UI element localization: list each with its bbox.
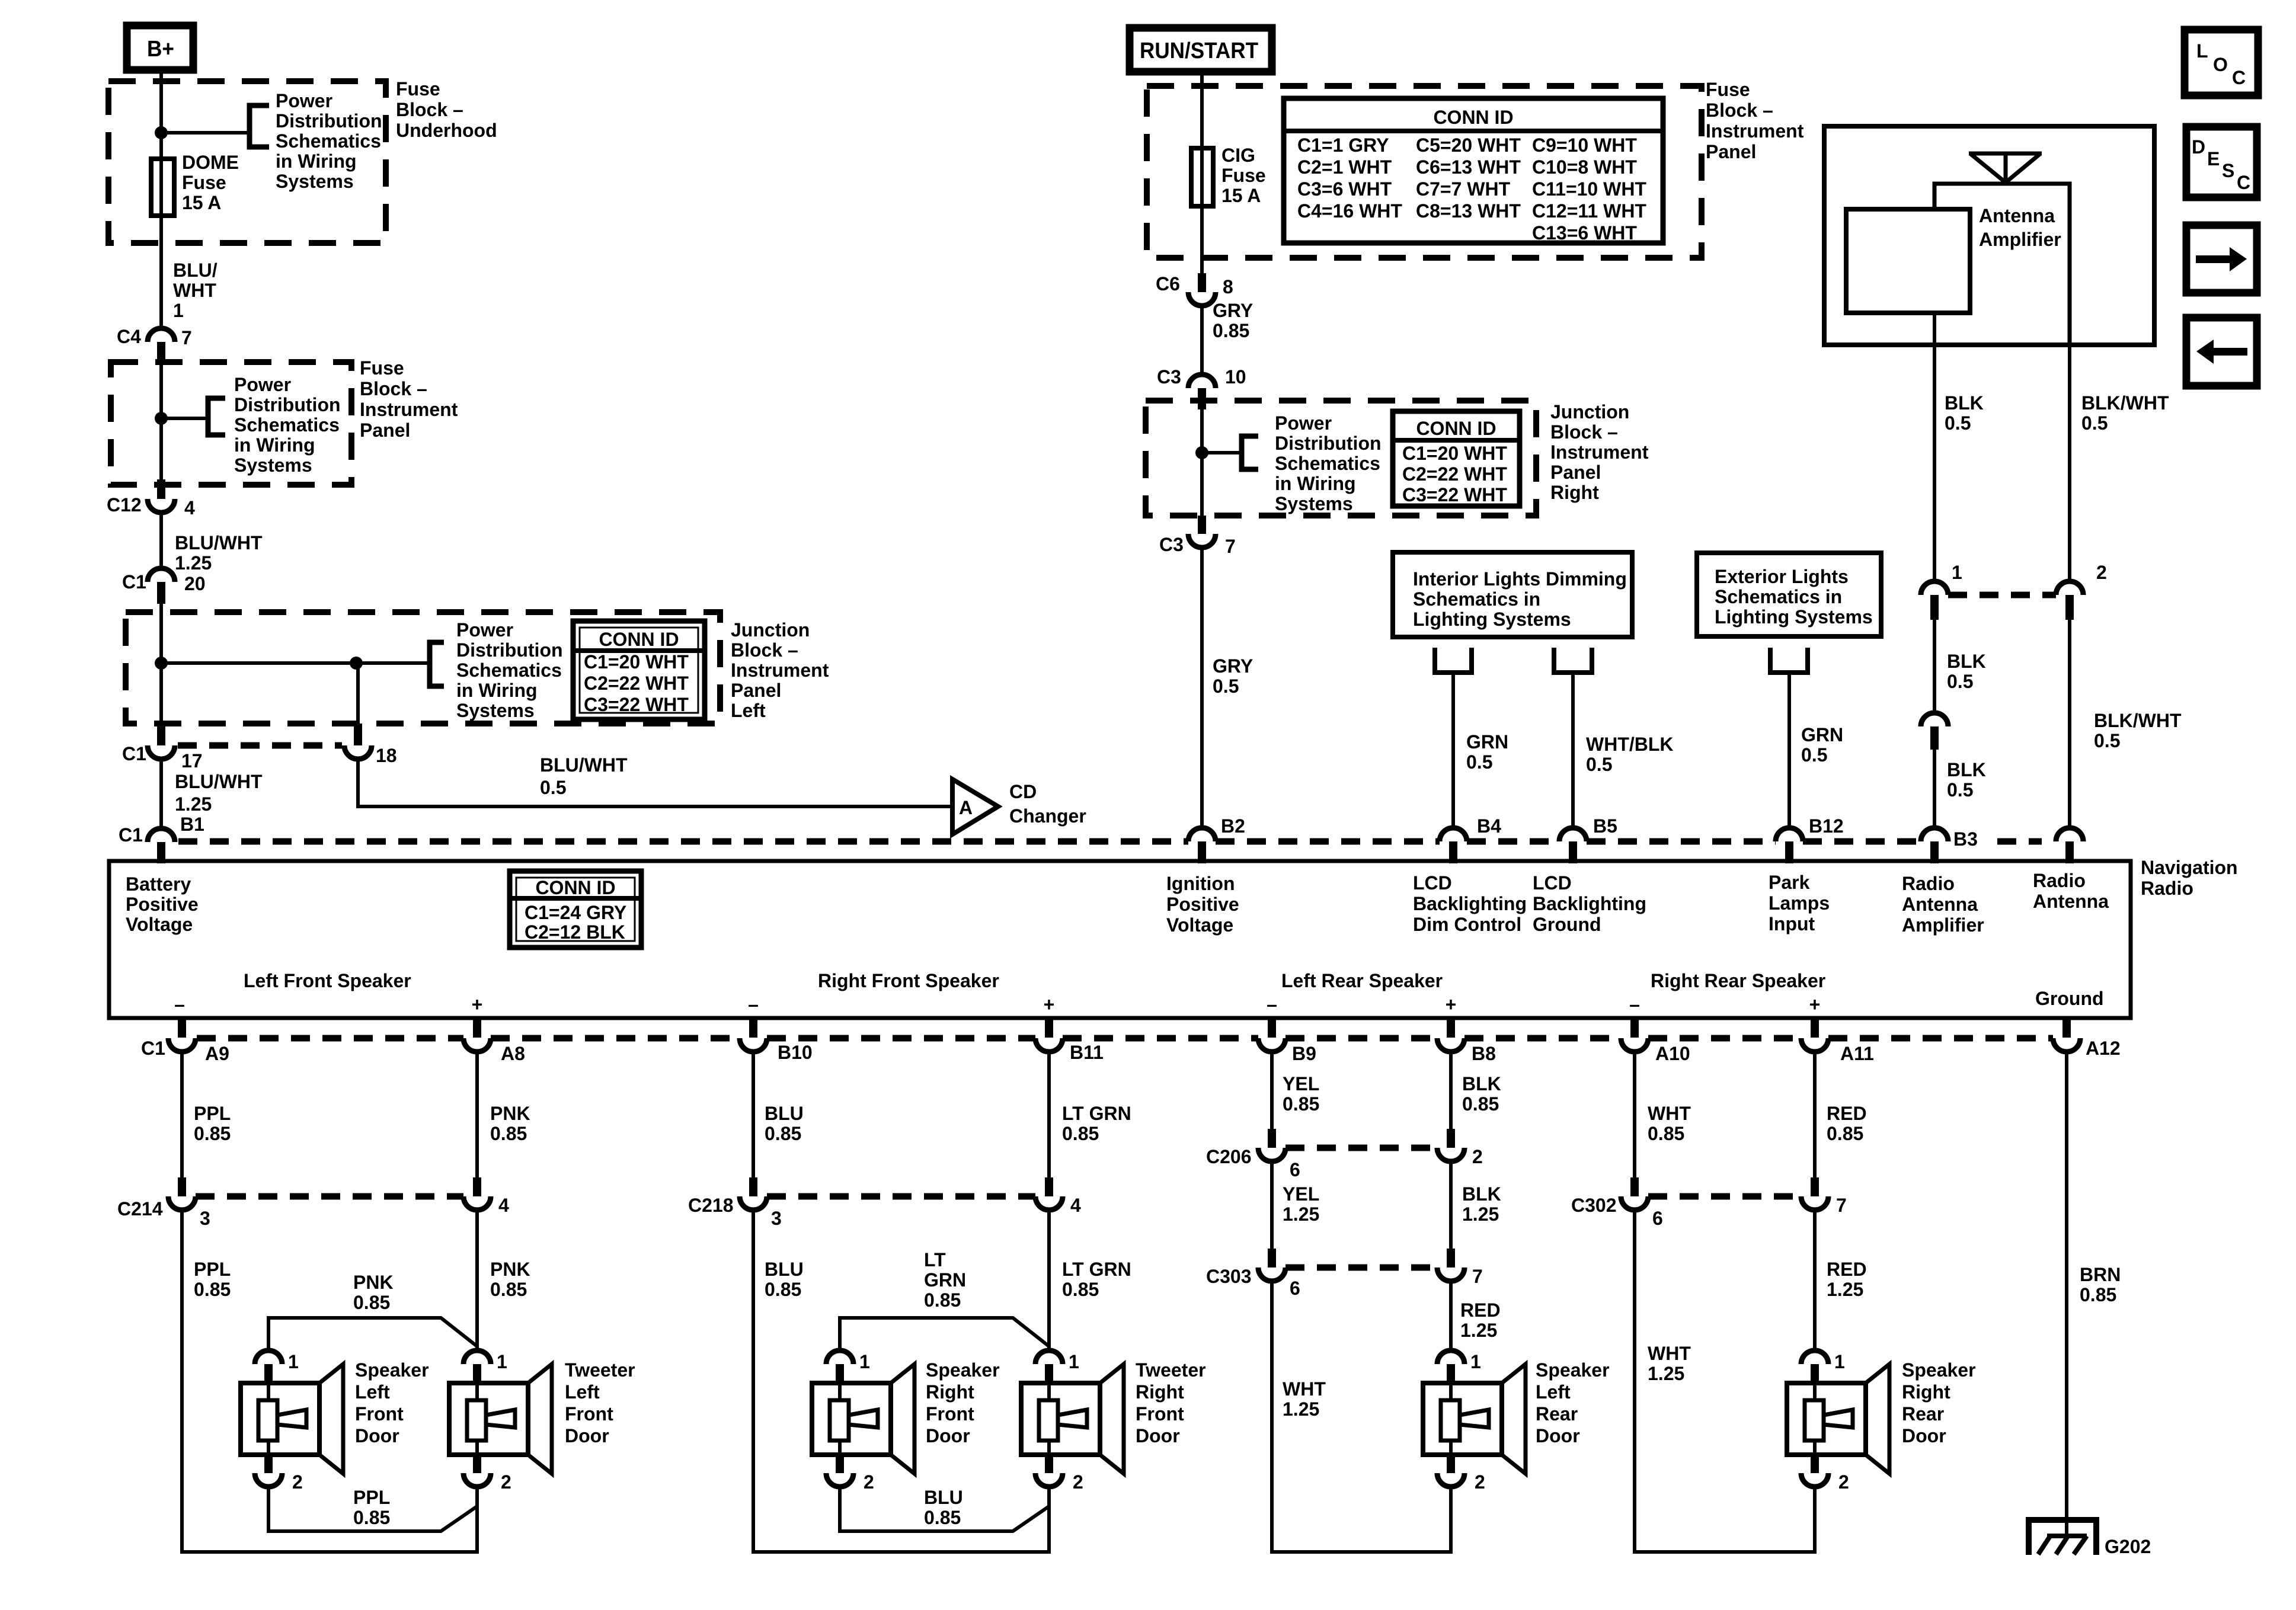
dashed connector line C206	[1285, 1145, 1437, 1151]
svg-text:B9: B9	[1292, 1043, 1316, 1064]
svg-text:Fuse: Fuse	[360, 357, 404, 379]
label BLU 0.85 upper	[765, 1103, 804, 1144]
svg-text:Distribution: Distribution	[1275, 433, 1382, 454]
connector C4 pin 7	[117, 326, 192, 363]
svg-text:0.85: 0.85	[490, 1279, 527, 1300]
svg-text:1.25: 1.25	[175, 552, 212, 574]
dashed connector line radio bottom	[197, 1035, 2053, 1042]
label BLK 0.5 third	[1947, 759, 1986, 801]
wire speaker LF pin1 jog	[268, 1318, 477, 1350]
svg-text:BLU/WHT: BLU/WHT	[540, 754, 628, 776]
label PNK 0.85 upper	[490, 1103, 530, 1144]
wire A8 to C214 pin 4	[475, 1052, 479, 1177]
svg-text:Dim Control: Dim Control	[1413, 914, 1521, 935]
tweeter left front door	[449, 1350, 552, 1493]
label BLU/WHT 0.5	[540, 754, 628, 798]
svg-text:1: 1	[1952, 562, 1962, 583]
svg-text:6: 6	[1290, 1159, 1300, 1180]
svg-text:Panel: Panel	[731, 680, 781, 701]
svg-text:1.25: 1.25	[175, 793, 212, 815]
svg-text:C2=22 WHT: C2=22 WHT	[1402, 463, 1507, 485]
svg-text:0.85: 0.85	[924, 1289, 961, 1311]
svg-text:C3=22 WHT: C3=22 WHT	[1402, 484, 1507, 505]
svg-text:B+: B+	[147, 37, 174, 62]
connector B4	[1440, 815, 1501, 863]
svg-text:BRN: BRN	[2080, 1264, 2121, 1285]
node B+ battery feed	[127, 25, 193, 70]
svg-text:Backlighting: Backlighting	[1533, 893, 1646, 914]
wire PPL to tweeter LF pin 2	[182, 1210, 477, 1552]
label power distribution schematics 5	[1275, 412, 1382, 514]
label BLK 0.5 first	[1945, 392, 1984, 434]
connector C6 pin 8	[1156, 273, 1233, 306]
svg-text:0.5: 0.5	[540, 777, 566, 798]
connector A8	[463, 1018, 525, 1064]
svg-text:C1: C1	[122, 743, 146, 764]
bracket interior lights left	[1435, 648, 1472, 673]
svg-text:B2: B2	[1221, 815, 1245, 837]
bracket exterior lights	[1770, 648, 1808, 673]
label YEL 0.85	[1283, 1073, 1319, 1115]
connector B8	[1437, 1018, 1496, 1064]
svg-text:0.5: 0.5	[1213, 676, 1239, 697]
svg-text:Lighting Systems: Lighting Systems	[1715, 606, 1873, 628]
wire C302 pin7 to speaker RR pin1	[1813, 1210, 1817, 1350]
svg-text:0.85: 0.85	[194, 1123, 231, 1144]
svg-text:CONN ID: CONN ID	[1416, 418, 1496, 439]
svg-text:C5=20 WHT: C5=20 WHT	[1416, 135, 1521, 156]
node junction left 1	[155, 657, 168, 670]
svg-text:Right Front Speaker: Right Front Speaker	[818, 970, 999, 991]
fuse DOME 15A	[151, 159, 174, 216]
svg-text:Positive: Positive	[126, 894, 199, 915]
svg-text:Schematics: Schematics	[276, 130, 381, 152]
svg-text:A11: A11	[1840, 1043, 1874, 1064]
svg-text:8: 8	[1223, 276, 1233, 297]
connector C302 pin 6	[1571, 1177, 1663, 1229]
antenna inner box	[1934, 184, 2070, 345]
svg-text:7: 7	[1836, 1195, 1847, 1216]
label fuse block instrument panel	[360, 357, 458, 441]
connector A12	[2053, 1018, 2121, 1059]
label antenna amplifier	[1979, 205, 2061, 250]
svg-text:Left Front Speaker: Left Front Speaker	[244, 970, 411, 991]
wire pin 17 to radio B1	[159, 759, 163, 828]
label navigation radio	[2141, 857, 2238, 899]
back arrow box	[2186, 318, 2257, 386]
svg-text:C1=1 GRY: C1=1 GRY	[1297, 135, 1389, 156]
label PNK 0.85 lower	[490, 1259, 530, 1300]
svg-text:Block –: Block –	[1550, 421, 1618, 443]
label LCD backlighting dim control	[1413, 872, 1527, 935]
svg-text:RED: RED	[1827, 1259, 1867, 1280]
wire RUN/START to fuse	[1200, 72, 1204, 273]
svg-text:C1=20 WHT: C1=20 WHT	[584, 651, 689, 673]
svg-text:Power: Power	[234, 374, 291, 395]
svg-text:WHT: WHT	[1648, 1343, 1691, 1364]
wire PNK to tweeter LF pin 1	[475, 1210, 479, 1350]
svg-text:Right Rear Speaker: Right Rear Speaker	[1651, 970, 1825, 991]
node junction right	[1195, 446, 1208, 459]
label fuse block instrument panel middle	[1706, 79, 1804, 162]
svg-text:Amplifier: Amplifier	[1979, 229, 2061, 250]
svg-text:C6=13 WHT: C6=13 WHT	[1416, 156, 1521, 178]
svg-text:C2=1 WHT: C2=1 WHT	[1297, 156, 1392, 178]
connector radio antenna pin	[2056, 828, 2083, 863]
svg-text:D: D	[2192, 136, 2205, 158]
svg-text:Amplifier: Amplifier	[1902, 914, 1984, 936]
label radio antenna amplifier	[1902, 873, 1984, 936]
svg-text:Right: Right	[1136, 1381, 1184, 1403]
label LCD backlighting ground	[1533, 872, 1646, 935]
svg-text:0.85: 0.85	[194, 1279, 231, 1300]
svg-text:WHT: WHT	[1283, 1378, 1326, 1400]
wire to power distribution bracket	[161, 131, 250, 135]
svg-text:Block –: Block –	[360, 378, 427, 399]
label WHT 1.25 right rear	[1648, 1343, 1691, 1384]
svg-text:C10=8 WHT: C10=8 WHT	[1532, 156, 1637, 178]
svg-text:Tweeter: Tweeter	[565, 1359, 635, 1381]
wire C12 to C1	[159, 513, 163, 568]
power distribution bracket 2	[208, 398, 225, 435]
svg-text:Radio: Radio	[1902, 873, 1955, 894]
svg-text:2: 2	[1472, 1146, 1483, 1167]
svg-text:Tweeter: Tweeter	[1136, 1359, 1206, 1381]
svg-text:Rear: Rear	[1536, 1403, 1578, 1425]
label GRY 0.85	[1213, 300, 1253, 341]
power distribution bracket 3	[430, 642, 444, 686]
connector B11	[1035, 1018, 1104, 1063]
conn id table junction block right	[1393, 411, 1520, 506]
wire C6 to C3	[1200, 306, 1204, 375]
svg-text:Panel: Panel	[360, 420, 410, 441]
wire WHT to speaker LR pin 2	[1272, 1281, 1451, 1552]
svg-text:Fuse: Fuse	[182, 172, 226, 193]
svg-text:Distribution: Distribution	[456, 639, 563, 661]
svg-text:0.85: 0.85	[353, 1507, 390, 1528]
svg-text:C2=22 WHT: C2=22 WHT	[584, 673, 689, 694]
svg-text:0.85: 0.85	[1062, 1123, 1099, 1144]
svg-text:Speaker: Speaker	[1902, 1359, 1976, 1381]
svg-text:Block –: Block –	[731, 639, 798, 661]
svg-text:7: 7	[1472, 1266, 1483, 1287]
svg-text:BLK: BLK	[1462, 1073, 1501, 1094]
connector B9	[1258, 1018, 1316, 1064]
connector C1 B1	[119, 824, 175, 863]
svg-text:A8: A8	[501, 1043, 525, 1064]
ground G202	[2029, 1520, 2151, 1557]
wire C206 to C303 left	[1270, 1161, 1274, 1249]
forward arrow box	[2186, 225, 2257, 293]
svg-text:A10: A10	[1655, 1043, 1690, 1064]
label speaker left rear door	[1536, 1359, 1610, 1446]
svg-text:Power: Power	[1275, 412, 1332, 434]
svg-text:in Wiring: in Wiring	[456, 680, 538, 701]
svg-text:4: 4	[498, 1195, 509, 1216]
svg-text:Park: Park	[1769, 872, 1810, 893]
svg-text:B3: B3	[1953, 828, 1978, 850]
svg-text:PPL: PPL	[194, 1103, 231, 1124]
svg-text:WHT: WHT	[1648, 1103, 1691, 1124]
power distribution bracket 1	[250, 105, 269, 147]
svg-text:0.5: 0.5	[1586, 754, 1612, 775]
label PNK 0.85 jog	[353, 1272, 394, 1313]
label BLU/WHT 1.25	[175, 532, 263, 574]
svg-text:17: 17	[181, 750, 203, 772]
svg-text:3: 3	[200, 1208, 210, 1229]
svg-text:Left: Left	[565, 1381, 600, 1403]
label LT GRN 0.85 lower	[1062, 1259, 1131, 1300]
dashed connector line C303	[1285, 1265, 1437, 1271]
connector pin 18	[344, 663, 397, 766]
antenna symbol	[1969, 153, 2042, 183]
svg-text:1.25: 1.25	[1283, 1204, 1319, 1225]
label BLU 0.85 lower	[765, 1259, 804, 1300]
svg-text:C303: C303	[1206, 1266, 1252, 1287]
svg-text:C206: C206	[1206, 1146, 1252, 1167]
wire speaker RF pin2 jog	[840, 1487, 1049, 1531]
svg-text:LT GRN: LT GRN	[1062, 1103, 1131, 1124]
svg-text:BLU/: BLU/	[173, 260, 218, 281]
svg-text:Schematics in: Schematics in	[1715, 586, 1842, 607]
svg-text:B4: B4	[1477, 815, 1501, 837]
connector B5	[1559, 815, 1617, 863]
svg-text:2: 2	[2096, 562, 2107, 583]
svg-text:B10: B10	[778, 1042, 813, 1063]
svg-text:Ground: Ground	[1533, 914, 1601, 935]
wire B11 to C218 pin 4	[1047, 1052, 1051, 1177]
svg-text:Voltage: Voltage	[126, 914, 193, 935]
power distribution bracket 5	[1242, 436, 1258, 469]
wire C3 pin7 to radio B2	[1200, 548, 1204, 828]
svg-text:–: –	[1267, 994, 1277, 1015]
label GRY 0.5	[1213, 655, 1253, 697]
svg-text:7: 7	[1225, 536, 1236, 557]
svg-text:BLU: BLU	[765, 1259, 804, 1280]
svg-text:PNK: PNK	[353, 1272, 394, 1293]
wire through fuse block IP	[159, 363, 163, 479]
antenna amplifier module box	[1846, 209, 1970, 313]
svg-text:C6: C6	[1156, 273, 1180, 295]
connector C3 pin 7	[1159, 516, 1236, 557]
svg-text:C2=12 BLK: C2=12 BLK	[525, 921, 625, 943]
svg-text:Ground: Ground	[2035, 988, 2104, 1009]
speaker polarity signs	[174, 994, 1820, 1015]
svg-text:PPL: PPL	[194, 1259, 231, 1280]
svg-text:Panel: Panel	[1550, 462, 1601, 483]
label BLU 0.85 bottom	[924, 1487, 963, 1528]
wire B9 to C206	[1270, 1052, 1274, 1129]
svg-text:1: 1	[173, 300, 184, 321]
connector C12 pin 4	[107, 479, 195, 518]
svg-text:C1=24 GRY: C1=24 GRY	[525, 902, 626, 923]
svg-text:YEL: YEL	[1283, 1073, 1319, 1094]
svg-text:LCD: LCD	[1533, 872, 1572, 894]
label DOME fuse	[182, 152, 239, 213]
connector C218 pin 4	[1035, 1177, 1081, 1216]
bracket interior lights right	[1554, 648, 1592, 673]
connector B10	[740, 1018, 813, 1063]
svg-text:LT GRN: LT GRN	[1062, 1259, 1131, 1280]
svg-text:C9=10 WHT: C9=10 WHT	[1532, 135, 1637, 156]
svg-text:C4=16 WHT: C4=16 WHT	[1297, 200, 1402, 222]
wire A9 to C214	[180, 1052, 184, 1177]
connector C1 pin 17	[122, 724, 203, 772]
svg-text:C1: C1	[119, 824, 143, 846]
svg-text:–: –	[748, 994, 759, 1015]
svg-text:Door: Door	[1136, 1425, 1180, 1446]
svg-text:–: –	[174, 994, 185, 1015]
svg-text:0.85: 0.85	[1283, 1093, 1319, 1115]
wire through junction block right	[1200, 409, 1204, 516]
wire pin 18 to CD changer	[358, 759, 952, 806]
svg-text:1.25: 1.25	[1462, 1204, 1499, 1225]
LOC box	[2185, 30, 2258, 95]
label PPL 0.85 lower	[194, 1259, 231, 1300]
label junction block instrument panel left	[731, 619, 829, 721]
connector C206 pin 6	[1206, 1129, 1300, 1180]
label radio antenna	[2033, 870, 2109, 912]
label junction block instrument panel right	[1550, 401, 1649, 503]
svg-text:1.25: 1.25	[1283, 1398, 1319, 1420]
svg-text:GRY: GRY	[1213, 655, 1253, 677]
wire BLK to B3	[1933, 750, 1936, 828]
svg-text:BLK: BLK	[1945, 392, 1984, 414]
svg-text:BLU/WHT: BLU/WHT	[175, 532, 263, 553]
wire BLK from amplifier	[1933, 313, 1936, 581]
svg-text:G202: G202	[2105, 1536, 2151, 1557]
svg-text:Radio: Radio	[2033, 870, 2086, 891]
svg-text:0.85: 0.85	[924, 1507, 961, 1528]
svg-text:BLK: BLK	[1947, 651, 1986, 672]
label PPL 0.85 bottom	[353, 1487, 390, 1528]
svg-text:BLK: BLK	[1947, 759, 1986, 780]
svg-text:Door: Door	[1536, 1425, 1580, 1446]
svg-text:in Wiring: in Wiring	[1275, 473, 1356, 494]
svg-text:Door: Door	[565, 1425, 609, 1446]
antenna amplifier outer box	[1824, 126, 2154, 345]
svg-text:WHT/BLK: WHT/BLK	[1586, 734, 1674, 755]
dashed connector line pins 1-2	[1948, 592, 2056, 598]
speaker right front door	[812, 1350, 914, 1493]
connector A10	[1621, 1018, 1690, 1064]
label fuse block underhood	[396, 78, 497, 141]
svg-text:Radio: Radio	[2141, 878, 2193, 899]
wire to bracket 2	[161, 417, 208, 420]
svg-text:in Wiring: in Wiring	[234, 434, 315, 456]
svg-text:A: A	[959, 797, 973, 818]
svg-text:Ignition: Ignition	[1166, 873, 1235, 894]
svg-text:Navigation: Navigation	[2141, 857, 2238, 878]
svg-text:Instrument: Instrument	[1550, 441, 1649, 463]
wire through junction block left	[159, 604, 163, 724]
label WHT 1.25 left rear	[1283, 1378, 1326, 1420]
svg-text:18: 18	[376, 745, 397, 766]
svg-text:C11=10 WHT: C11=10 WHT	[1532, 178, 1646, 200]
svg-text:Voltage: Voltage	[1166, 914, 1233, 936]
svg-text:BLK: BLK	[1462, 1183, 1501, 1205]
wire to B4	[1451, 673, 1455, 828]
svg-text:LCD: LCD	[1413, 872, 1452, 894]
connector C1 pin 20	[122, 568, 206, 604]
wire B10 to C218	[752, 1052, 755, 1177]
svg-text:Right: Right	[926, 1381, 974, 1403]
svg-text:0.85: 0.85	[1062, 1279, 1099, 1300]
svg-text:3: 3	[771, 1208, 782, 1229]
svg-text:Left Rear Speaker: Left Rear Speaker	[1281, 970, 1443, 991]
dashed connector line C218	[767, 1193, 1035, 1200]
svg-text:Front: Front	[565, 1403, 613, 1425]
svg-text:C4: C4	[117, 326, 141, 347]
svg-text:CONN ID: CONN ID	[1433, 107, 1513, 128]
connector A11	[1801, 1018, 1874, 1064]
label power distribution schematics 3	[456, 619, 563, 721]
svg-text:C8=13 WHT: C8=13 WHT	[1416, 200, 1521, 222]
svg-text:Fuse: Fuse	[396, 78, 440, 100]
node junction in fuse block IP	[155, 412, 168, 425]
svg-text:C12: C12	[107, 494, 142, 516]
svg-text:Power: Power	[456, 619, 513, 641]
svg-text:C7=7 WHT: C7=7 WHT	[1416, 178, 1511, 200]
svg-text:L: L	[2196, 40, 2208, 62]
label BLK 0.5 second	[1947, 651, 1986, 692]
svg-text:Left: Left	[355, 1381, 390, 1403]
svg-text:Power: Power	[276, 90, 332, 111]
connector C302 pin 7	[1801, 1177, 1847, 1216]
connector C214 pin 3	[117, 1177, 210, 1229]
svg-text:Front: Front	[926, 1403, 974, 1425]
svg-text:0.85: 0.85	[2080, 1284, 2116, 1305]
connector pin 2 antenna	[2056, 562, 2107, 620]
label YEL 1.25	[1283, 1183, 1319, 1225]
connector C218 pin 3	[688, 1177, 782, 1229]
svg-text:+: +	[1809, 994, 1821, 1015]
svg-text:C3: C3	[1157, 366, 1181, 388]
svg-text:Right: Right	[1550, 482, 1599, 503]
svg-text:Speaker: Speaker	[926, 1359, 1000, 1381]
fuse CIG 15A	[1191, 148, 1213, 206]
conn id table radio	[510, 871, 641, 948]
svg-text:6: 6	[1290, 1278, 1300, 1299]
svg-text:Block –: Block –	[396, 99, 463, 120]
svg-text:CONN ID: CONN ID	[535, 877, 615, 898]
wire A10 to C302	[1633, 1052, 1636, 1177]
svg-text:Door: Door	[355, 1425, 399, 1446]
svg-text:B11: B11	[1070, 1042, 1104, 1063]
wire C303 pin7 to speaker LR pin1	[1449, 1281, 1453, 1350]
svg-text:O: O	[2213, 54, 2228, 75]
label GRN 0.5	[1466, 731, 1508, 773]
wire BLK/WHT to radio	[2068, 620, 2071, 828]
svg-text:YEL: YEL	[1283, 1183, 1319, 1205]
svg-text:Systems: Systems	[1275, 493, 1353, 514]
label CD changer	[1009, 781, 1086, 827]
CD changer triangle A	[952, 779, 998, 834]
svg-text:0.5: 0.5	[1947, 671, 1973, 692]
svg-text:0.85: 0.85	[490, 1123, 527, 1144]
DESC box	[2186, 127, 2257, 197]
fuse block underhood dashed box	[108, 81, 386, 243]
svg-text:Systems: Systems	[276, 171, 354, 192]
svg-text:BLK/WHT: BLK/WHT	[2094, 710, 2182, 731]
label BRN 0.85	[2080, 1264, 2121, 1305]
svg-text:C218: C218	[688, 1195, 734, 1216]
svg-text:Instrument: Instrument	[731, 660, 829, 681]
svg-text:–: –	[1629, 994, 1640, 1015]
dashed connector line C214	[196, 1193, 463, 1200]
svg-text:BLK/WHT: BLK/WHT	[2081, 392, 2169, 414]
label BLK/WHT 0.5 first	[2081, 392, 2169, 434]
